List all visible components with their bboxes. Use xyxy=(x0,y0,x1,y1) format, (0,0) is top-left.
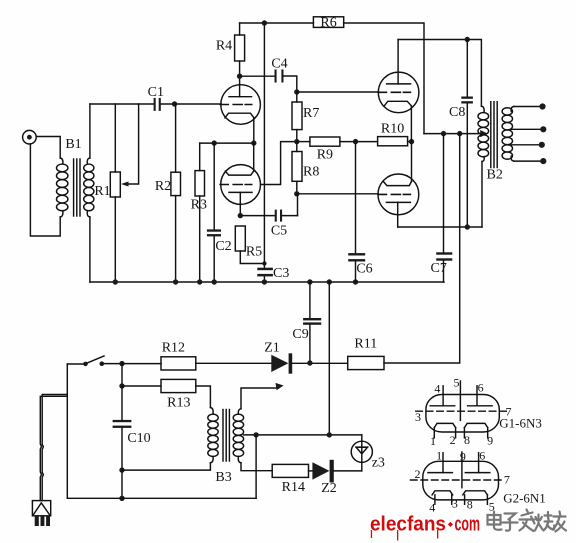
capacitor C6 xyxy=(348,142,365,282)
transformer B2 xyxy=(478,102,514,227)
wire B2 secondary top terminal xyxy=(514,106,543,108)
node C9 bus xyxy=(307,279,312,284)
svg-text:R9: R9 xyxy=(317,148,333,163)
svg-text:B1: B1 xyxy=(65,137,81,152)
wire R13 branch xyxy=(121,364,123,386)
wire V3 cathode to node xyxy=(410,106,412,142)
wire mains feed left vertical xyxy=(66,364,68,498)
svg-text:R7: R7 xyxy=(303,106,319,121)
node C6 bus xyxy=(353,279,358,284)
svg-text:B2: B2 xyxy=(487,168,503,183)
svg-text:R10: R10 xyxy=(381,122,404,137)
svg-text:6: 6 xyxy=(478,380,484,394)
cathode rail wire V1/V2 xyxy=(200,142,254,144)
wire V4 plate to B2 primary bottom xyxy=(398,226,482,228)
capacitor C10 xyxy=(113,386,132,470)
svg-text:C4: C4 xyxy=(271,57,287,72)
node mains return xyxy=(119,496,124,501)
node heater ground riser xyxy=(327,432,332,437)
svg-text:3: 3 xyxy=(415,410,421,424)
wire C1 to V1 grid xyxy=(161,103,221,105)
svg-text:4: 4 xyxy=(434,381,440,395)
wire to V4 grid xyxy=(297,193,378,195)
wire input node horizontal xyxy=(90,103,154,105)
node C10 / B3 primary bottom xyxy=(119,467,124,472)
arrow heater supply xyxy=(276,383,284,390)
node R2 bus xyxy=(173,279,178,284)
wire V1 cathode down to rail xyxy=(253,118,255,144)
pinout diagram G1-6N3 xyxy=(416,381,507,438)
capacitor C9 xyxy=(303,318,321,363)
resistor R10 xyxy=(356,137,412,146)
svg-text:B3: B3 xyxy=(215,470,231,485)
svg-text:5: 5 xyxy=(454,375,460,389)
node B3 tap / mains riser xyxy=(253,432,258,437)
jack J1 xyxy=(23,130,37,144)
resistor R3 xyxy=(195,143,205,282)
wire V2 cathode up to rail xyxy=(253,143,255,171)
wire heater/ground riser xyxy=(328,282,330,435)
svg-text:Z2: Z2 xyxy=(321,481,337,496)
svg-text:6: 6 xyxy=(479,448,485,462)
wire top supply rail xyxy=(240,22,314,24)
node C3 bus xyxy=(262,279,267,284)
svg-text:C5: C5 xyxy=(271,224,287,239)
pin number labels G2-6N1 xyxy=(415,448,546,514)
svg-text:C2: C2 xyxy=(215,239,231,254)
wire jack to B1 primary top xyxy=(36,137,60,159)
terminal dot 2 xyxy=(540,126,546,132)
svg-text:8: 8 xyxy=(467,497,473,511)
resistor R5 xyxy=(235,226,264,264)
svg-text:R4: R4 xyxy=(216,39,232,54)
mains cord double line xyxy=(40,395,66,501)
node top rail xyxy=(262,20,267,25)
diode Z2 xyxy=(312,460,361,483)
node V1/V2 cathodes xyxy=(251,140,256,145)
wire B+ center tap xyxy=(424,133,481,135)
wire C4 to R7 top xyxy=(284,76,297,92)
wire B3 secondary bottom to R14 xyxy=(241,463,272,471)
node C7 top xyxy=(441,131,446,136)
resistor R7 xyxy=(292,92,302,142)
svg-text:R13: R13 xyxy=(167,396,190,411)
node R3 bus xyxy=(197,279,202,284)
pin number labels G1-6N3 xyxy=(415,375,542,448)
svg-text:R2: R2 xyxy=(155,179,171,194)
node R1 bus xyxy=(113,279,118,284)
svg-text:C6: C6 xyxy=(356,262,372,277)
wire V4 cathode to node xyxy=(411,142,413,182)
node R7 top / V3 grid xyxy=(294,89,299,94)
svg-text:G1-6N3: G1-6N3 xyxy=(499,416,542,431)
capacitor C5 xyxy=(275,210,298,222)
capacitor C8 xyxy=(461,40,473,228)
resistor R6 xyxy=(313,17,343,28)
capacitor C7 xyxy=(436,134,452,282)
svg-text:7: 7 xyxy=(504,472,510,486)
node R5 bottom xyxy=(262,261,266,265)
capacitor C2 xyxy=(207,143,221,282)
svg-text:R5: R5 xyxy=(246,245,262,260)
svg-text:G2-6N1: G2-6N1 xyxy=(503,491,546,506)
arrow into B2 primary center xyxy=(480,130,488,137)
svg-text:C9: C9 xyxy=(292,327,308,342)
wire R6 to B+ xyxy=(344,23,424,134)
wire B1 secondary bottom to ground bus xyxy=(89,217,91,282)
svg-text:z3: z3 xyxy=(372,456,385,471)
svg-text:R8: R8 xyxy=(303,164,319,179)
svg-text:2: 2 xyxy=(415,467,421,481)
mains plug xyxy=(32,501,50,526)
resistor R11 xyxy=(348,134,460,370)
resistor R9 xyxy=(297,137,356,146)
terminal dot 1 xyxy=(539,103,545,109)
resistor R2 xyxy=(171,104,181,282)
triode V2 (inverted) xyxy=(220,165,260,216)
capacitor C4 xyxy=(275,70,284,83)
wire mains return bottom xyxy=(67,497,256,499)
node V1 plate / C4 xyxy=(237,74,242,79)
node C8 top xyxy=(465,37,470,42)
svg-text:R11: R11 xyxy=(354,337,377,352)
node R9/R10/C6 xyxy=(353,139,358,144)
wire B2 secondary bottom terminal xyxy=(514,160,544,162)
svg-text:Z1: Z1 xyxy=(264,341,280,356)
wire long vertical supply to C3 xyxy=(263,23,265,268)
node C8 bottom xyxy=(465,224,470,229)
wire B2 secondary tap 1 xyxy=(511,128,543,130)
node at C1/R2 xyxy=(172,101,177,106)
wire B1 secondary top to input node xyxy=(89,104,91,158)
wire V2 plate to C5 xyxy=(240,215,274,217)
resistor R14 xyxy=(272,464,312,477)
node R13 xyxy=(119,383,124,388)
svg-text:C3: C3 xyxy=(273,266,289,281)
transformer B1 xyxy=(57,158,94,217)
wire node to C4 xyxy=(240,75,275,77)
wire B3 tap xyxy=(244,434,362,436)
chinese watermark 电子发烧友 xyxy=(488,510,567,532)
triode V4 (inverted) xyxy=(378,174,419,227)
lamp z3 xyxy=(351,435,372,471)
node V2 plate xyxy=(238,213,243,218)
svg-text:R14: R14 xyxy=(282,480,305,495)
wire V3 plate to B2 primary top xyxy=(398,40,481,107)
wire C9 riser from bus xyxy=(309,282,311,318)
node R7/R8/R9/V2 grid xyxy=(294,139,299,144)
svg-text:C10: C10 xyxy=(127,431,150,446)
wire B3 heater winding top to arrow xyxy=(241,388,276,409)
capacitor C3 xyxy=(257,268,273,282)
node R8 bottom / V4 grid / C5 xyxy=(294,191,299,196)
svg-text:elecfans: elecfans xyxy=(370,513,446,536)
resistor R13 xyxy=(122,379,210,407)
svg-text:9: 9 xyxy=(460,449,466,463)
node switch / R12 R13 C10 xyxy=(119,361,124,366)
terminal dot 3 xyxy=(539,142,545,148)
node C2 top xyxy=(212,140,217,145)
ground bus xyxy=(90,281,444,283)
svg-text:com: com xyxy=(455,513,481,536)
wire to switch xyxy=(67,363,85,365)
terminal dot 4 xyxy=(540,158,546,164)
elecfans.com logo xyxy=(370,513,480,541)
svg-text:R12: R12 xyxy=(162,341,185,356)
svg-text:R6: R6 xyxy=(320,16,336,31)
potentiometer R1 xyxy=(110,104,120,282)
svg-text:9: 9 xyxy=(487,434,493,448)
transformer B3 xyxy=(122,408,244,471)
svg-text:C7: C7 xyxy=(431,261,447,276)
wire V2 grid to R7/R8 node xyxy=(261,142,297,185)
resistor R4 xyxy=(235,23,245,76)
wiper arrow of R1 xyxy=(121,104,139,187)
svg-text:1: 1 xyxy=(436,448,442,462)
wire B2 secondary tap 2 xyxy=(511,144,542,146)
wire tap riser to mains return xyxy=(255,435,257,498)
node heater riser bus xyxy=(327,279,332,284)
resistor R12 xyxy=(122,357,271,370)
pinout diagram G2-6N1 xyxy=(411,452,505,504)
svg-text:3: 3 xyxy=(452,496,458,510)
wire jack ground loop to B1 primary bottom xyxy=(30,144,60,236)
switch S1 xyxy=(83,356,122,366)
svg-text:2: 2 xyxy=(450,433,456,447)
svg-text:R3: R3 xyxy=(191,198,207,213)
svg-text:R1: R1 xyxy=(94,184,110,199)
node C2 bus xyxy=(212,279,217,284)
node Z1 / C9 / R11 xyxy=(307,360,312,365)
svg-text:C1: C1 xyxy=(148,85,164,100)
node R10 / cathodes V3 V4 xyxy=(409,139,414,144)
capacitor C1 xyxy=(154,98,161,111)
wire C10 down to mains return xyxy=(121,470,123,498)
triode V1 xyxy=(220,76,260,124)
resistor R8 xyxy=(292,142,302,194)
diode Z1 xyxy=(271,353,347,373)
node R11 feed xyxy=(457,131,462,136)
wire to V3 grid xyxy=(297,91,379,93)
wire C5 riser xyxy=(297,194,299,216)
svg-text:1: 1 xyxy=(430,434,436,448)
svg-text:8: 8 xyxy=(464,433,470,447)
svg-text:C8: C8 xyxy=(449,105,465,120)
triode V3 xyxy=(378,40,419,113)
